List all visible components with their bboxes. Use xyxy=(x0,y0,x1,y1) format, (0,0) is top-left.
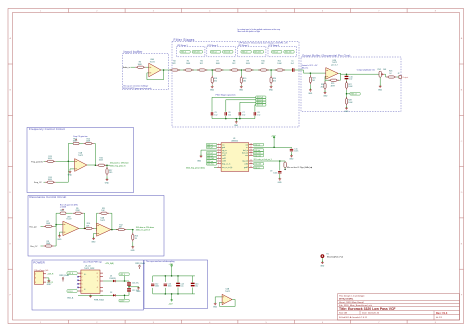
wires from labels to caps xyxy=(212,97,256,112)
resistor R15 xyxy=(83,142,93,144)
resistor R19 xyxy=(240,76,242,85)
wire to op-amp xyxy=(56,160,75,162)
label 3320_1nf3 xyxy=(256,101,266,104)
svg-text:3320_1nf4: 3320_1nf4 xyxy=(257,105,264,107)
svg-text:gnd: gnd xyxy=(222,147,225,149)
left pins xyxy=(217,145,221,168)
svg-text:2u2: 2u2 xyxy=(291,63,294,65)
svg-text:MountingHole_Pad: MountingHole_Pad xyxy=(327,256,343,259)
svg-text:3320_a2: 3320_a2 xyxy=(207,147,213,149)
svg-text:2K2: 2K2 xyxy=(321,86,324,88)
svg-text:3320_1nf2: 3320_1nf2 xyxy=(257,100,264,102)
svg-text:RV1: RV1 xyxy=(60,210,63,212)
svg-text:3320_1nf1: 3320_1nf1 xyxy=(193,52,200,54)
resistor R25 xyxy=(329,79,339,81)
diode D1 xyxy=(113,280,116,282)
resistor R17 xyxy=(106,165,108,167)
cap C12 xyxy=(152,276,154,294)
svg-text:4: 4 xyxy=(97,287,98,289)
svg-text:LPF Stage 1: LPF Stage 1 xyxy=(177,44,188,47)
ground at plus input op1 xyxy=(60,232,63,235)
ground xyxy=(106,178,109,181)
svg-text:pins 5-7: pins 5-7 xyxy=(331,65,337,67)
resistor R8 xyxy=(230,69,240,71)
svg-text:17: 17 xyxy=(250,146,252,148)
ground xyxy=(131,245,134,248)
ground xyxy=(270,85,273,88)
+12V_F label xyxy=(119,273,129,276)
frequency control annotation box xyxy=(27,128,134,193)
IC U3 AS3320 body xyxy=(221,143,249,172)
svg-text:GND: GND xyxy=(57,239,62,241)
resistor R3 xyxy=(135,66,145,68)
svg-text:1K2 panel w. 1/W driver: 1K2 panel w. 1/W driver xyxy=(110,163,129,165)
svg-text:1K2: 1K2 xyxy=(200,63,203,65)
resistor R20 xyxy=(270,76,272,85)
cap C16 xyxy=(127,282,131,285)
svg-text:GND: GND xyxy=(47,284,52,286)
connector J1 xyxy=(34,272,43,285)
svg-text:cell3: cell3 xyxy=(222,161,226,163)
svg-text:v+: v+ xyxy=(246,147,248,149)
right pin labels xyxy=(254,143,264,146)
svg-text:sig_out: sig_out xyxy=(242,160,248,163)
svg-text:+12V_R: +12V_R xyxy=(68,273,73,275)
svg-text:KiCad E.D.A. kicad-cli 7.0.11: KiCad E.D.A. kicad-cli 7.0.11 xyxy=(339,316,368,319)
svg-text:1: 1 xyxy=(97,276,98,278)
resistor R12b xyxy=(116,229,126,231)
plus input to ground xyxy=(215,297,222,303)
svg-text:1K5 drive w. 220 driver: 1K5 drive w. 220 driver xyxy=(136,227,155,229)
left pin labels xyxy=(206,143,216,146)
svg-text:1n2: 1n2 xyxy=(242,114,245,116)
svg-text:10u: 10u xyxy=(195,286,198,288)
svg-text:3320_1nf1: 3320_1nf1 xyxy=(257,97,264,99)
svg-text:GND: GND xyxy=(269,90,274,92)
svg-text:Sheet: /3320 Main Board/: Sheet: /3320 Main Board/ xyxy=(339,301,364,304)
svg-text:+12V_F(A): +12V_F(A) xyxy=(105,262,114,265)
svg-text:res_cv_in (x): res_cv_in (x) xyxy=(222,167,233,169)
resistor R8b xyxy=(41,245,44,247)
capacitor C6 xyxy=(225,112,227,115)
right pins xyxy=(249,145,253,168)
svg-text:1n2: 1n2 xyxy=(228,114,231,116)
label 3320_1nf2 xyxy=(256,99,266,102)
resistor R26 to ground xyxy=(324,81,326,90)
svg-text:2K2: 2K2 xyxy=(243,80,246,82)
svg-text:3320_res_pin9_S: 3320_res_pin9_S xyxy=(136,230,151,232)
top rail xyxy=(153,268,195,276)
wire xyxy=(146,66,149,68)
ground xyxy=(290,154,293,157)
svg-text:at 220K: at 220K xyxy=(60,206,67,209)
svg-text:3320_a1: 3320_a1 xyxy=(181,52,187,54)
svg-text:H1: H1 xyxy=(326,254,328,256)
svg-text:Freq_pot(CV): Freq_pot(CV) xyxy=(31,161,43,164)
resistor R6 xyxy=(197,69,207,71)
feedback wire xyxy=(147,70,164,80)
svg-text:NP0/C0G/X7R types give best pe: NP0/C0G/X7R types give best perfs xyxy=(123,87,152,90)
svg-text:GND_A: GND_A xyxy=(67,297,74,300)
ground right xyxy=(137,286,140,289)
svg-text:C9: C9 xyxy=(270,171,272,173)
output wire xyxy=(341,72,381,75)
junction drop 2 xyxy=(241,69,243,71)
no connects xyxy=(77,276,79,278)
svg-text:J1 EuroPower_2x5: J1 EuroPower_2x5 xyxy=(34,269,48,272)
svg-text:100n: 100n xyxy=(273,173,277,175)
svg-text:+12V_R: +12V_R xyxy=(47,274,54,276)
resistor R13 xyxy=(44,160,46,162)
svg-text:GND: GND xyxy=(289,159,294,161)
decoupling annotation box xyxy=(144,260,208,309)
trimmer RV3 xyxy=(73,139,79,145)
svg-text:Date: 2024-05-16: Date: 2024-05-16 xyxy=(362,312,380,315)
svg-text:3320_1nf3: 3320_1nf3 xyxy=(254,52,261,54)
main chain wire xyxy=(175,69,292,71)
svg-text:GND: GND xyxy=(213,307,218,309)
DIP pin numbers xyxy=(82,273,98,293)
capacitor C8 xyxy=(254,112,256,115)
svg-text:14: 14 xyxy=(250,154,252,156)
svg-text:freq_cv_in: freq_cv_in xyxy=(222,164,230,166)
title block text xyxy=(339,295,448,319)
power annotation box xyxy=(32,260,144,310)
ground at plus input xyxy=(70,169,75,170)
spare op-amp U4B xyxy=(222,294,232,304)
svg-text:LPF Stage 4: LPF Stage 4 xyxy=(269,44,280,47)
trimmer RV2 xyxy=(379,71,384,77)
svg-text:sig_in: sig_in xyxy=(222,150,227,152)
svg-text:Res_CV: Res_CV xyxy=(30,246,38,248)
svg-text:8: 8 xyxy=(97,273,98,275)
DIP bottom ground xyxy=(78,294,103,297)
svg-text:Title: Eurorack 3320 Low Pass: Title: Eurorack 3320 Low Pass VCF xyxy=(339,307,395,311)
svg-text:10: 10 xyxy=(250,166,252,168)
svg-text:C16 47u: C16 47u xyxy=(132,283,139,285)
feedback wires xyxy=(56,213,85,228)
op-amp U2B xyxy=(326,68,338,80)
resistor R18 xyxy=(211,76,213,85)
svg-text:GND: GND xyxy=(210,90,215,92)
output wire xyxy=(87,164,96,165)
resistor R23 xyxy=(386,76,396,78)
bottom rail xyxy=(153,294,195,298)
title block frame xyxy=(338,294,460,320)
label 3320_out3 xyxy=(253,51,263,54)
cap C13 xyxy=(164,276,166,294)
resistor R7b xyxy=(41,225,44,227)
svg-text:TL072: TL072 xyxy=(78,155,83,157)
resonance control annotation box xyxy=(28,196,164,257)
cap C17 xyxy=(127,288,131,291)
svg-text:GND: GND xyxy=(68,174,73,176)
label 3320_in3 xyxy=(241,51,251,54)
ground at plus input op2 xyxy=(94,233,97,238)
resistor R7 xyxy=(213,69,223,71)
label 3320_out1 xyxy=(192,51,202,54)
ground xyxy=(309,88,312,91)
wire from wiper to R23 xyxy=(384,74,386,77)
ground xyxy=(240,85,243,88)
resistor R10b xyxy=(84,227,94,229)
svg-text:Id: 1/1: Id: 1/1 xyxy=(436,317,443,319)
svg-text:LPF Stage 2: LPF Stage 2 xyxy=(207,44,218,47)
resistor R14 xyxy=(44,181,46,183)
svg-text:Resonance Control Circuit: Resonance Control Circuit xyxy=(30,195,67,199)
svg-text:PWR_FLAG: PWR_FLAG xyxy=(94,299,104,302)
capacitor C7 xyxy=(239,112,241,115)
right pin names inside xyxy=(242,143,248,169)
resistor R24 xyxy=(310,72,312,74)
svg-text:100n: 100n xyxy=(155,286,159,288)
svg-text:3320_1nf4: 3320_1nf4 xyxy=(285,52,292,54)
svg-text:+12V_F: +12V_F xyxy=(120,274,125,276)
capacitor C11 xyxy=(274,147,291,148)
svg-text:4K99: 4K99 xyxy=(331,85,335,87)
svg-text:res_in: res_in xyxy=(222,153,227,155)
label 3320_out2 xyxy=(223,51,233,54)
filter stages annotation box xyxy=(172,42,299,128)
svg-text:gnd2: gnd2 xyxy=(244,167,248,169)
-12V_F label xyxy=(119,299,129,302)
svg-text:The caps used are rail decoupl: The caps used are rail decoupling xyxy=(146,260,174,263)
svg-text:18: 18 xyxy=(250,143,252,145)
resistor R9 xyxy=(243,69,253,71)
LPF stage 2 box xyxy=(207,46,236,57)
svg-text:3320_1nf3: 3320_1nf3 xyxy=(254,164,261,166)
capacitor C9 xyxy=(279,161,281,171)
svg-text:1n2: 1n2 xyxy=(214,114,217,116)
svg-text:GND: GND xyxy=(105,182,110,184)
resistor R13b xyxy=(132,230,134,233)
resistor R16 xyxy=(96,164,106,166)
ground xyxy=(324,90,326,92)
label 3320_out4 xyxy=(284,51,294,54)
svg-text:Output Buffer (Sequential Pro: Output Buffer (Sequential Pro One) xyxy=(302,53,351,57)
label 3320_in2 xyxy=(210,51,220,54)
svg-text:Output: Output xyxy=(402,76,408,79)
svg-text:+12V: +12V xyxy=(169,264,174,266)
svg-text:Filter Stage capacitors: Filter Stage capacitors xyxy=(216,94,236,97)
svg-text:cell4: cell4 xyxy=(244,164,248,166)
svg-text:buf_in: buf_in xyxy=(243,150,248,152)
svg-text:3320_a2: 3320_a2 xyxy=(211,52,217,54)
svg-text:Frequency Control Circuit: Frequency Control Circuit xyxy=(29,127,65,131)
resistor R11 xyxy=(275,69,285,71)
capacitor C5 xyxy=(211,112,213,115)
svg-text:3320_a4: 3320_a4 xyxy=(272,52,278,54)
svg-text:1K2: 1K2 xyxy=(232,63,235,65)
svg-text:Rev: V1.3: Rev: V1.3 xyxy=(436,312,448,315)
cap C15 polarized xyxy=(192,276,194,294)
DIP left pins xyxy=(78,273,81,291)
svg-text:Size: A3: Size: A3 xyxy=(339,312,348,315)
svg-text:GND: GND xyxy=(308,93,313,95)
svg-text:2K2: 2K2 xyxy=(273,80,276,82)
svg-text:D2: D2 xyxy=(110,292,112,294)
ground xyxy=(278,177,281,180)
left pin names inside xyxy=(222,144,233,169)
junction drop 1 xyxy=(211,69,213,71)
wire to op-amp xyxy=(54,225,63,227)
capacitor C10 polarized xyxy=(346,74,348,76)
svg-text:2K2: 2K2 xyxy=(214,80,217,82)
svg-text:GND: GND xyxy=(344,111,349,113)
svg-text:Output amplitude trim: Output amplitude trim xyxy=(357,69,375,72)
svg-text:12: 12 xyxy=(250,160,252,162)
svg-text:Most sure the point is a light: Most sure the point is a light xyxy=(238,30,261,33)
wire up xyxy=(54,225,56,247)
LPF stage 3 box xyxy=(237,46,266,57)
svg-text:+12V: +12V xyxy=(271,135,276,137)
ground xyxy=(211,85,214,88)
resistor R4 xyxy=(170,69,180,71)
trimmer RV1 xyxy=(60,209,66,215)
svg-text:vcc: vcc xyxy=(222,144,225,146)
junction drop 3 xyxy=(270,69,272,71)
svg-text:LPF Stage 3: LPF Stage 3 xyxy=(238,44,249,47)
resistor R9b xyxy=(73,212,83,214)
svg-text:3320_freq_pin12_S: 3320_freq_pin12_S xyxy=(110,165,126,167)
svg-text:J2: J2 xyxy=(398,73,400,75)
svg-text:GND: GND xyxy=(91,242,96,244)
label +12V_A xyxy=(67,272,77,275)
svg-text:cell1: cell1 xyxy=(222,155,226,157)
bottom rail wire xyxy=(212,116,255,122)
svg-text:buf_out: buf_out xyxy=(242,152,248,155)
svg-text:DIYSynthDRL: DIYSynthDRL xyxy=(339,298,354,301)
audio out long wire xyxy=(253,160,280,162)
svg-text:1K5: 1K5 xyxy=(109,172,112,174)
svg-text:1N5819: 1N5819 xyxy=(109,278,115,280)
op-amp U1B res xyxy=(63,221,79,235)
svg-text:V+: V+ xyxy=(84,274,86,276)
op-amp U1A xyxy=(75,159,87,172)
svg-text:3320_1nf3: 3320_1nf3 xyxy=(257,102,264,104)
LPF stage 1 box xyxy=(176,46,205,57)
svg-text:11: 11 xyxy=(250,163,252,165)
label 3320_out xyxy=(350,93,360,96)
bottom rail wire with diode D2 xyxy=(103,294,125,296)
svg-text:AS3320: AS3320 xyxy=(232,140,238,143)
mid node xyxy=(129,286,139,288)
cap C14 polarized xyxy=(177,276,179,294)
pin 3 wire to ground xyxy=(201,150,217,156)
top rail wire with diode D1 xyxy=(103,280,129,283)
feedback network wire xyxy=(325,73,341,82)
LPF stage 4 box xyxy=(268,46,297,57)
resistor R27 xyxy=(346,79,348,82)
wire from filter xyxy=(299,70,326,73)
svg-text:TL072: TL072 xyxy=(66,219,71,221)
ground xyxy=(235,120,238,123)
svg-text:-12V_R: -12V_R xyxy=(47,282,54,284)
diode D2 xyxy=(113,294,116,296)
svg-text:RV2: RV2 xyxy=(378,69,381,71)
svg-text:16: 16 xyxy=(250,149,252,151)
svg-text:15: 15 xyxy=(250,152,252,154)
svg-text:Res_pot: Res_pot xyxy=(30,225,38,228)
op-amp U2A xyxy=(149,63,161,77)
resistor R28 xyxy=(346,94,348,98)
wire to op-amp 2 xyxy=(94,226,97,231)
output connector J2 xyxy=(399,76,402,79)
junction xyxy=(163,69,165,71)
svg-text:10u: 10u xyxy=(180,286,183,288)
input buffer annotation box xyxy=(123,54,169,90)
output buffer annotation box xyxy=(301,57,401,112)
label 3320_1nf4 xyxy=(256,104,266,107)
svg-text:This design is in prototype: This design is in prototype xyxy=(339,295,365,298)
svg-text:3320_1nf2: 3320_1nf2 xyxy=(224,52,231,54)
svg-text:1n2: 1n2 xyxy=(257,114,260,116)
svg-text:Max out level 5.1Vpp (4dBu) ◀: Max out level 5.1Vpp (4dBu) ◀ xyxy=(287,166,312,169)
svg-text:100n: 100n xyxy=(168,286,172,288)
label -12V_A xyxy=(67,290,77,293)
+12V power symbol xyxy=(171,264,173,268)
svg-text:Input buffer: Input buffer xyxy=(124,50,144,54)
output wire op2 xyxy=(111,229,118,231)
svg-text:POWER: POWER xyxy=(33,260,45,264)
DIP inner texts xyxy=(84,274,86,291)
DIP U2 power body xyxy=(81,270,100,293)
svg-text:GND: GND xyxy=(131,250,136,252)
svg-text:-12V_R: -12V_R xyxy=(68,291,73,293)
label 3320_1nf1 xyxy=(256,96,266,99)
svg-text:cell2: cell2 xyxy=(222,158,226,160)
svg-text:GND: GND xyxy=(323,96,328,98)
svg-text:TL072: TL072 xyxy=(225,291,230,293)
ground under trimmer xyxy=(379,77,381,86)
svg-text:1K2: 1K2 xyxy=(261,63,264,65)
svg-text:Filter Stages: Filter Stages xyxy=(174,38,195,42)
svg-text:GND: GND xyxy=(239,90,244,92)
svg-text:3320_1nf2: 3320_1nf2 xyxy=(254,155,261,157)
svg-text:7: 7 xyxy=(97,281,98,283)
DIP right pins xyxy=(100,273,103,295)
svg-text:-12V_F: -12V_F xyxy=(120,300,125,302)
output wire to filter xyxy=(164,69,175,71)
op-amp U4 res2 xyxy=(97,223,111,236)
svg-text:Audio_in: Audio_in xyxy=(123,66,130,69)
svg-text:C17 47u: C17 47u xyxy=(132,290,139,292)
mounting hole H1 xyxy=(321,254,325,258)
pin vcc wire to +12V xyxy=(253,146,274,148)
svg-text:dBu rms: dBu rms xyxy=(302,68,309,70)
svg-text:GND: GND xyxy=(278,182,283,184)
svg-text:100n: 100n xyxy=(294,151,298,153)
capacitor C1 xyxy=(292,68,294,71)
svg-text:vee: vee xyxy=(245,155,248,157)
wire up to junction xyxy=(56,161,69,182)
output wire op1 xyxy=(79,227,87,229)
svg-text:GND: GND xyxy=(320,265,325,267)
feedback wires xyxy=(68,144,95,164)
feedback resistor R11b xyxy=(99,212,109,214)
wire xyxy=(131,66,136,68)
power flag 2 xyxy=(139,265,141,269)
+12V power symbol xyxy=(273,136,275,140)
svg-text:TL072_PWR: TL072_PWR xyxy=(84,268,95,270)
svg-text:3320_freq_pin12_S(14): 3320_freq_pin12_S(14) xyxy=(186,167,205,169)
svg-text:(local 78L05 PWR reg): (local 78L05 PWR reg) xyxy=(83,262,102,264)
feedback wire xyxy=(220,300,236,307)
svg-text:Freq_CV: Freq_CV xyxy=(34,181,42,184)
svg-text:GND: GND xyxy=(197,161,202,163)
svg-text:3320_a3: 3320_a3 xyxy=(242,52,248,54)
svg-text:TL072: TL072 xyxy=(100,220,105,222)
